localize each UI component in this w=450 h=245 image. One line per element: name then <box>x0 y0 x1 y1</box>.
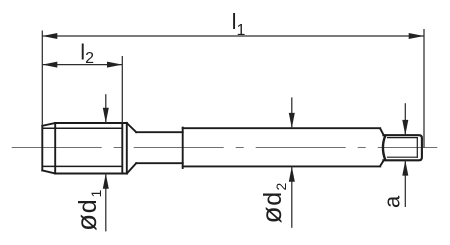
tip chamfer top <box>42 123 55 126</box>
d1 arrowhead up <box>103 174 109 189</box>
square chamfer bottom <box>380 161 383 167</box>
square left arc <box>383 137 385 159</box>
neck chamfer top <box>127 123 136 132</box>
thread end face <box>121 123 123 174</box>
l2 arrowhead right <box>107 62 122 68</box>
d1 dimension line upper <box>105 94 107 123</box>
thread root bottom <box>42 165 122 167</box>
neck chamfer bottom <box>127 163 136 173</box>
a dimension line lower <box>404 160 406 207</box>
l1 dimension line <box>42 35 424 37</box>
square flat top <box>388 137 418 139</box>
square flat bottom <box>388 156 418 158</box>
l2 dimension line <box>42 64 122 66</box>
d2 arrowhead up <box>289 166 295 181</box>
svg-text:a: a <box>380 195 405 208</box>
tip chamfer bottom <box>42 170 55 173</box>
l1 arrowhead right <box>409 33 424 39</box>
l2 arrowhead left <box>42 62 57 68</box>
centerline <box>12 147 438 149</box>
a dimension line upper <box>404 103 406 135</box>
d2 dimension line upper <box>291 97 293 128</box>
l2 right extension line <box>121 56 123 123</box>
neck bottom <box>136 162 183 164</box>
d1 arrowhead down <box>103 108 109 123</box>
a arrowhead up <box>402 160 408 175</box>
d2 dimension line lower <box>291 166 293 227</box>
l1 left extension line <box>41 31 43 127</box>
d2 arrowhead down <box>289 113 295 128</box>
l1 right extension line <box>423 29 425 148</box>
thread root top <box>42 127 122 129</box>
a arrowhead down <box>402 120 408 135</box>
thread end second line <box>126 123 128 174</box>
l1 arrowhead left <box>42 33 57 39</box>
shank top <box>183 127 381 129</box>
thread outer bottom <box>55 173 127 175</box>
d1 dimension line lower <box>105 174 107 232</box>
shank bottom <box>183 165 381 167</box>
shank step vertical <box>182 128 184 168</box>
square chamfer top <box>380 129 383 135</box>
square outline <box>383 135 422 160</box>
neck top <box>136 131 183 133</box>
thread outer top <box>55 122 127 124</box>
chamfer end vertical <box>54 123 56 174</box>
tap tip face <box>41 126 43 171</box>
square end chamfer vertical <box>416 138 418 158</box>
